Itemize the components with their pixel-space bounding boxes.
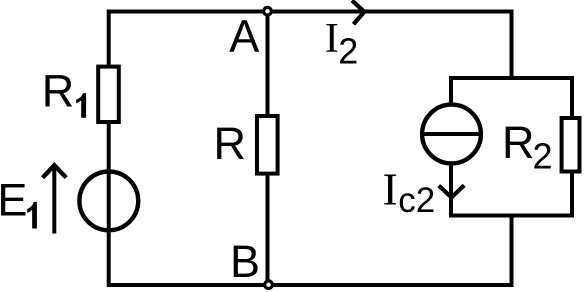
svg-text:c2: c2 bbox=[398, 181, 435, 220]
wire right vertical top bbox=[510, 12, 514, 79]
resistor R1 bbox=[98, 67, 119, 122]
current source Ic2 (circle with bar) bbox=[422, 105, 481, 164]
resistor R bbox=[257, 116, 278, 174]
resistor R2 bbox=[562, 118, 580, 172]
wire bottom connector bbox=[510, 214, 514, 286]
svg-text:2: 2 bbox=[533, 136, 553, 177]
svg-text:I: I bbox=[325, 16, 339, 62]
svg-text:E: E bbox=[0, 175, 27, 226]
wire parallel section top bar bbox=[449, 76, 574, 80]
svg-text:2: 2 bbox=[338, 31, 358, 72]
svg-text:A: A bbox=[229, 11, 259, 62]
wire top (left corner to right corner through node A) bbox=[107, 10, 514, 14]
svg-text:R: R bbox=[214, 118, 247, 169]
wire left vertical (through R1 and E1) bbox=[107, 10, 111, 288]
arrow for E1 (pointing up) bbox=[43, 165, 67, 233]
arrowhead Ic2 (pointing down) bbox=[439, 185, 464, 197]
svg-text:B: B bbox=[230, 236, 260, 287]
wire middle vertical (node A to node B through R) bbox=[266, 12, 270, 286]
wire bottom (left corner to right corner through node B) bbox=[107, 283, 514, 287]
node A bbox=[264, 7, 272, 15]
arrowhead I2 on top wire (pointing right) bbox=[352, 1, 364, 25]
wire R2 branch bbox=[570, 76, 574, 216]
svg-text:R: R bbox=[42, 65, 74, 116]
wire parallel section bottom bar bbox=[449, 214, 574, 218]
svg-text:I: I bbox=[383, 163, 398, 214]
source E1 (circle) bbox=[79, 172, 138, 231]
svg-text:R: R bbox=[502, 117, 535, 168]
node B bbox=[265, 281, 273, 289]
wire current source branch bbox=[449, 76, 453, 216]
